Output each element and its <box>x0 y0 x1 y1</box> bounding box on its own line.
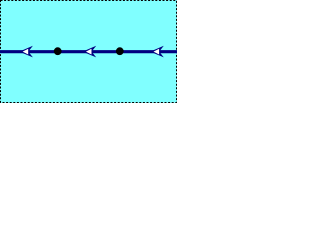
arrowhead 2 (middle) <box>83 46 97 58</box>
dashed frame <box>1 1 177 103</box>
arrowhead 1 (left) <box>19 46 33 58</box>
background <box>0 0 177 103</box>
node dot 2 <box>116 47 124 55</box>
node dot 1 <box>54 47 62 55</box>
wire (current line) <box>0 50 177 53</box>
arrowhead 3 (right) <box>150 46 164 58</box>
